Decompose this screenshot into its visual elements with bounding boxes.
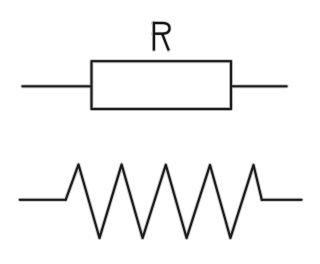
wire left lead of zigzag resistor [20,199,66,201]
wire left lead of box resistor [23,85,92,87]
wire right lead of zigzag resistor [262,199,302,201]
resistor R (IEC box symbol) [92,61,232,109]
label R (value label of box resistor) [153,22,170,51]
wire right lead of box resistor [231,85,287,87]
resistor (ANSI zigzag symbol) [66,165,262,239]
